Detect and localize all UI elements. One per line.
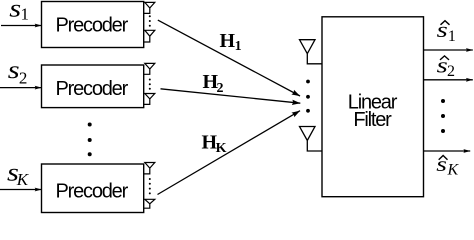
label s_1 xyxy=(9,0,29,24)
precoder block 1 xyxy=(42,2,144,48)
svg-text:1: 1 xyxy=(448,28,456,45)
svg-text:Precoder: Precoder xyxy=(56,181,129,203)
svg-text:2: 2 xyxy=(19,68,28,87)
label H_1 xyxy=(220,30,242,54)
vertical ellipsis between precoders xyxy=(88,123,92,157)
svg-text:Precoder: Precoder xyxy=(56,15,129,37)
antenna TX1b xyxy=(144,30,155,42)
antenna TX2a xyxy=(144,63,155,74)
wire input arrow s2 xyxy=(0,87,42,89)
output ellipsis dots xyxy=(441,99,445,133)
wire channel H1 arrow xyxy=(158,20,300,96)
svg-text:K: K xyxy=(16,170,30,189)
antenna TX1a xyxy=(144,2,155,13)
wire channel HK arrow xyxy=(158,111,301,195)
svg-text:s: s xyxy=(8,57,20,85)
svg-text:2: 2 xyxy=(217,81,224,96)
wire output arrow K xyxy=(424,150,471,152)
svg-text:1: 1 xyxy=(235,39,242,54)
wire channel H2 arrow xyxy=(161,89,301,103)
label s-hat_1 xyxy=(437,17,456,45)
antenna TX2b xyxy=(144,94,155,105)
label s-hat_K xyxy=(436,153,459,179)
label H_2 xyxy=(203,71,224,96)
label s_2 xyxy=(8,57,28,88)
label s_K xyxy=(7,159,30,189)
svg-text:Filter: Filter xyxy=(353,109,392,131)
antenna column dots TX2 xyxy=(149,79,151,90)
svg-text:H: H xyxy=(220,30,236,52)
antenna RX bottom xyxy=(300,127,323,152)
svg-text:K: K xyxy=(447,161,460,178)
antenna TXKa xyxy=(144,163,155,174)
precoder block 2 xyxy=(42,65,144,108)
precoder block K xyxy=(42,164,144,213)
antenna RX top xyxy=(300,40,323,64)
linear filter block xyxy=(322,17,424,197)
receive array ellipsis dots xyxy=(306,80,310,113)
svg-text:Precoder: Precoder xyxy=(56,78,129,100)
antenna column dots TXK xyxy=(149,178,151,194)
wire output arrow 1 xyxy=(424,49,473,51)
svg-text:2: 2 xyxy=(447,63,455,80)
svg-text:1: 1 xyxy=(21,5,30,24)
antenna TXKb xyxy=(144,199,155,208)
svg-text:s: s xyxy=(9,0,21,23)
label s-hat_2 xyxy=(437,53,455,80)
label H_K xyxy=(202,131,227,156)
wire output arrow 2 xyxy=(424,79,473,81)
wire input arrow sK xyxy=(0,189,42,191)
svg-text:K: K xyxy=(216,141,227,156)
wire input arrow s1 xyxy=(1,25,42,27)
antenna column dots TX1 xyxy=(149,15,151,26)
